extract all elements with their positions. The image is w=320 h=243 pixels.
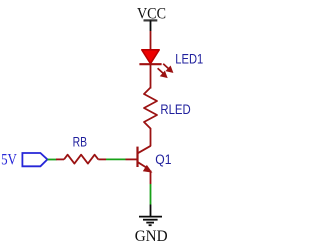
svg-text:Q1: Q1 bbox=[155, 152, 171, 167]
LED light arrow 2 bbox=[158, 68, 167, 77]
port 5V bbox=[22, 153, 47, 166]
LED LED1 bbox=[139, 50, 172, 78]
emitter arrowhead bbox=[143, 165, 153, 173]
net wire emitter to ground bbox=[150, 184, 152, 205]
net wire RB to base bbox=[106, 158, 126, 160]
transistor Q1 bbox=[138, 146, 153, 173]
zigzag bbox=[64, 155, 98, 164]
resistor RB bbox=[56, 155, 106, 164]
net wire port to RB bbox=[48, 159, 57, 161]
collector diagonal bbox=[138, 146, 151, 153]
wire base pin bbox=[126, 158, 138, 160]
resistor RLED bbox=[144, 88, 157, 129]
wire VCC to LED anode bbox=[150, 31, 152, 50]
wire Q1 emitter down bbox=[150, 171, 152, 185]
svg-text:RLED: RLED bbox=[160, 102, 191, 117]
svg-text:LED1: LED1 bbox=[175, 52, 203, 67]
ground symbol bbox=[139, 205, 162, 226]
svg-text:RB: RB bbox=[73, 134, 87, 149]
LED light arrow 1 bbox=[163, 64, 172, 72]
right pin bbox=[98, 158, 106, 160]
left pin bbox=[56, 158, 64, 160]
svg-text:GND: GND bbox=[135, 228, 168, 243]
wire LED cathode to RLED bbox=[150, 64, 152, 88]
base bar bbox=[136, 147, 138, 167]
svg-text:5V: 5V bbox=[1, 151, 17, 168]
power flag VCC bbox=[144, 20, 158, 31]
wire RLED to Q1 collector bbox=[150, 128, 152, 146]
emitter diagonal bbox=[138, 162, 147, 167]
